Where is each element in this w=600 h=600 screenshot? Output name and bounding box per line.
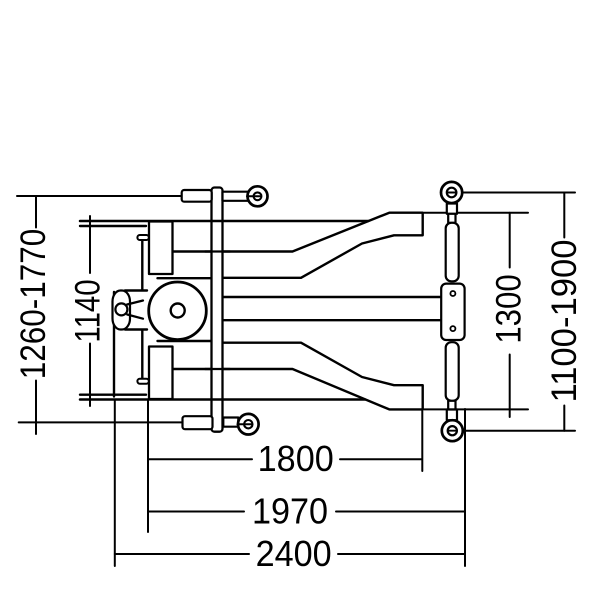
plate hole upper xyxy=(450,291,455,296)
1260-1770 dim line xyxy=(35,196,37,434)
bottom rail inner line xyxy=(80,394,146,396)
bottom rail outer line xyxy=(80,398,365,401)
2400 dim line xyxy=(115,553,465,555)
upper rod xyxy=(446,223,459,281)
bottom ring hole xyxy=(244,420,252,428)
cylinder bottom line xyxy=(125,328,147,330)
bottom link ring outer xyxy=(442,420,463,441)
1100-1900 bottom extension xyxy=(452,430,575,432)
top ring hole xyxy=(254,192,262,200)
upper neck wide xyxy=(447,204,457,214)
top link ring outer xyxy=(441,182,462,203)
spline line lower xyxy=(127,315,143,319)
extension line through bottom ring hole xyxy=(448,430,457,432)
1800 left extension xyxy=(147,400,149,533)
top rail inner line xyxy=(80,225,146,227)
upper neck narrow xyxy=(448,214,455,223)
plate hole lower xyxy=(450,326,455,331)
box bottom line across post xyxy=(205,250,230,252)
bottom pin shaft xyxy=(223,418,238,427)
inner vertical top xyxy=(141,239,143,290)
left bottom extension xyxy=(19,421,183,423)
1970/2400 right extension xyxy=(464,409,466,566)
left top extension xyxy=(17,195,182,197)
gearbox hub circle xyxy=(171,304,185,318)
top ring outer xyxy=(248,186,268,206)
lower shelf line xyxy=(158,340,212,342)
svg-text:1100-1900: 1100-1900 xyxy=(545,239,584,402)
guard capsule xyxy=(113,291,131,330)
svg-text:2400: 2400 xyxy=(256,534,332,574)
top rail outer line xyxy=(80,220,368,223)
1300 dim line xyxy=(509,213,511,417)
svg-text:1260-1770: 1260-1770 xyxy=(15,229,54,380)
shaft circle xyxy=(115,303,127,315)
center plate xyxy=(441,284,464,340)
1140 dim line xyxy=(89,216,91,406)
bottom cap tab xyxy=(137,379,148,384)
extension line through top ring hole xyxy=(448,192,457,194)
lower neck narrow xyxy=(448,401,455,410)
lower bracket plate xyxy=(149,347,173,400)
top link ring hole xyxy=(447,188,457,198)
svg-text:1140: 1140 xyxy=(68,279,107,342)
svg-text:1300: 1300 xyxy=(490,274,529,343)
gearbox big circle xyxy=(149,282,207,340)
1100-1900 top extension xyxy=(443,192,575,194)
spline line upper xyxy=(127,301,143,305)
1800 dim line xyxy=(148,458,422,460)
upper bracket plate xyxy=(149,222,173,275)
upper shelf line xyxy=(158,277,212,279)
mid beam bottom edge xyxy=(223,319,442,321)
top pin shaft xyxy=(223,192,249,201)
cylinder top line xyxy=(125,289,147,291)
bottom ring outer xyxy=(238,414,259,435)
svg-text:1800: 1800 xyxy=(258,439,334,479)
svg-text:1970: 1970 xyxy=(252,492,328,532)
top cap tab xyxy=(137,235,148,240)
1300 bottom extension xyxy=(424,408,528,410)
lower neck wide xyxy=(447,410,457,421)
bottom ring pin mid line xyxy=(238,423,253,425)
1800 right extension xyxy=(421,409,423,471)
mid beam top edge xyxy=(223,296,442,298)
lower rod xyxy=(446,342,459,401)
bottom clamp xyxy=(183,416,213,429)
1100-1900 dim line xyxy=(563,193,565,431)
1970 dim line xyxy=(148,511,465,513)
inner vertical bottom xyxy=(141,330,143,380)
upper arm outer edge xyxy=(173,213,423,278)
top clamp xyxy=(182,190,212,202)
top ring pin mid line xyxy=(247,195,260,197)
mast post xyxy=(212,188,223,432)
bottom link ring hole xyxy=(448,426,457,435)
lower arm outer edge xyxy=(173,343,423,410)
box top line across post xyxy=(205,368,230,370)
2400 left extension xyxy=(114,400,116,567)
left frame vertical xyxy=(113,292,115,397)
1300 top extension xyxy=(424,212,528,214)
